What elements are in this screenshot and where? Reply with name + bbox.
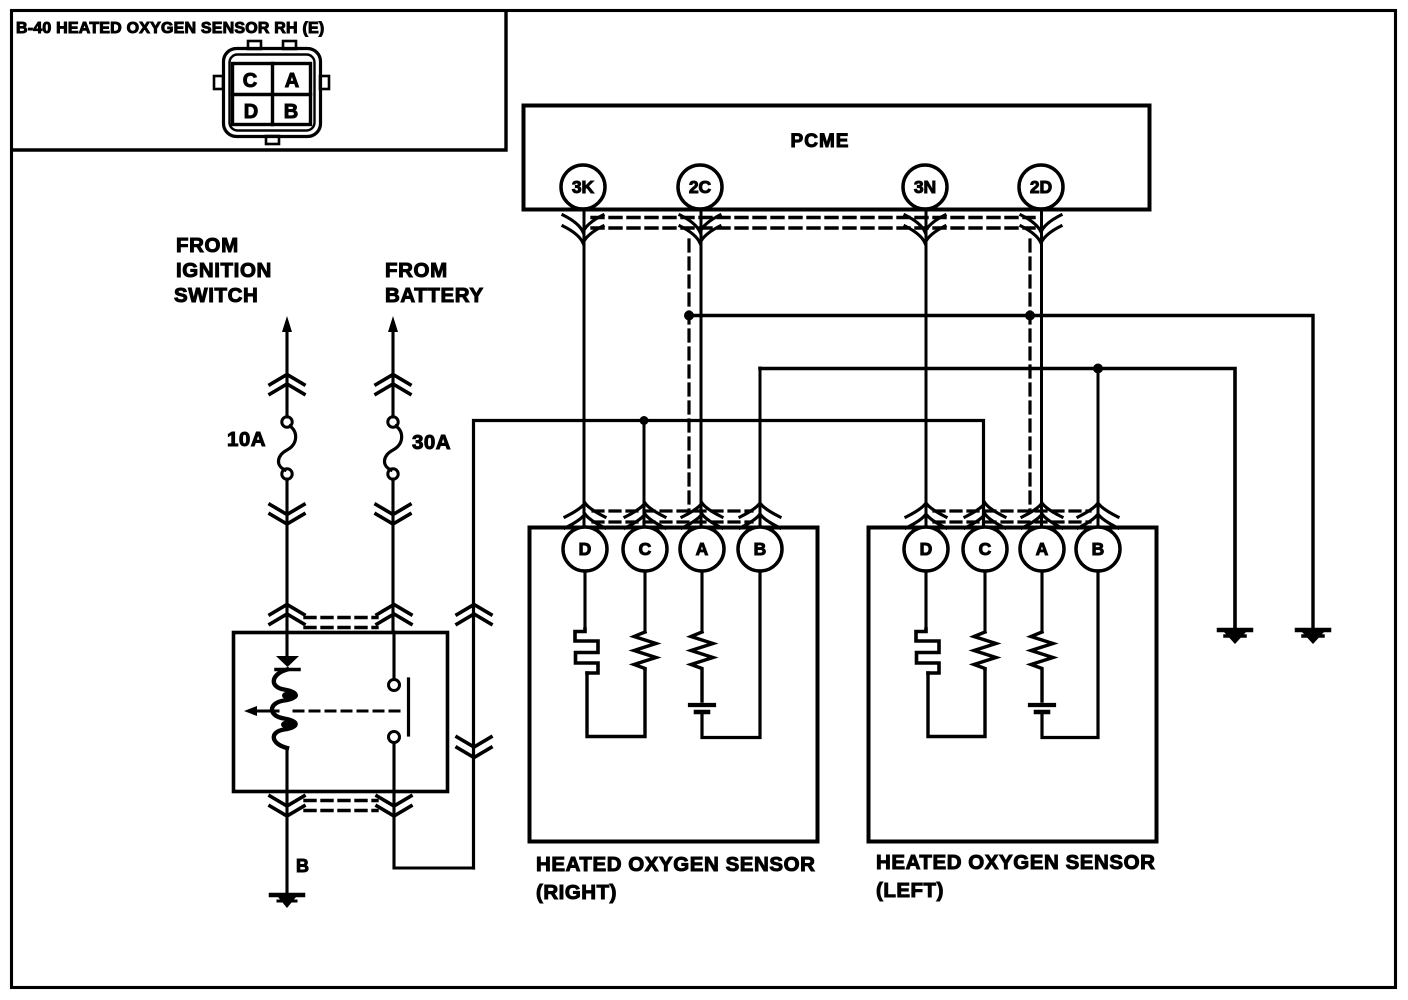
connector below fuse (ignition)	[270, 505, 304, 525]
connector grid horizontal divider	[233, 93, 311, 96]
svg-text:D: D	[920, 539, 933, 559]
PCME pin 2D	[1019, 165, 1063, 209]
junction dot shield 2D	[1025, 311, 1035, 321]
svg-text:BATTERY: BATTERY	[385, 284, 484, 307]
wire 2D to left sensor A	[1040, 210, 1043, 527]
svg-text:2C: 2C	[689, 177, 712, 197]
connector above left sensor x=1042	[1022, 503, 1062, 528]
relay actuator dashed link	[294, 710, 406, 713]
svg-text:HEATED OXYGEN SENSOR: HEATED OXYGEN SENSOR	[536, 853, 815, 876]
relay output wire	[394, 743, 474, 869]
svg-text:C: C	[243, 70, 257, 92]
svg-text:3N: 3N	[914, 177, 936, 197]
shield dashed lines above left sensor	[934, 511, 1090, 522]
relay switch feed wire	[392, 632, 395, 680]
svg-text:(LEFT): (LEFT)	[876, 879, 944, 902]
svg-text:C: C	[979, 539, 992, 559]
wire 3K to right sensor D	[583, 210, 586, 527]
ground symbol left	[1219, 628, 1251, 633]
connector above left sensor x=926	[906, 503, 946, 528]
svg-text:B-40 HEATED OXYGEN SENSOR RH (: B-40 HEATED OXYGEN SENSOR RH (E)	[16, 20, 324, 37]
connector above right sensor x=760	[740, 503, 780, 528]
main relay box	[234, 633, 448, 792]
heated oxygen sensor box (left)	[869, 528, 1157, 842]
connector right tab	[320, 76, 329, 89]
ground symbol right	[1297, 628, 1329, 633]
connector top tab 2	[283, 41, 296, 49]
sensor heater element	[916, 629, 939, 673]
connector top tab 1	[248, 41, 261, 49]
wire 2C to right sensor A	[700, 210, 703, 527]
svg-text:10A: 10A	[227, 428, 266, 451]
sensor pin C	[963, 527, 1007, 571]
connector above fuse (ignition)	[270, 375, 304, 395]
shield drain dashed wire (2D)	[1028, 240, 1031, 511]
wire pin D to heater	[583, 571, 586, 629]
ignition wire to relay	[285, 479, 288, 632]
connector on return wire	[457, 737, 491, 758]
shield braid dashed lines below PCME	[592, 218, 1034, 229]
sensor pin B	[1076, 527, 1120, 571]
sensor trim resistor	[634, 632, 656, 669]
junction dot left sensor B	[1093, 364, 1103, 374]
svg-text:3K: 3K	[572, 177, 595, 197]
svg-text:A: A	[696, 539, 709, 559]
connector grid vertical divider	[271, 64, 274, 125]
wire cell to pin B	[702, 571, 760, 738]
PCME module box U1	[524, 106, 1150, 210]
connector face outer shell	[224, 49, 321, 137]
connector above right sensor x=702	[682, 503, 722, 528]
sensor pin D	[563, 527, 607, 571]
sensor pin A	[1020, 527, 1064, 571]
wire left sensor B up	[1097, 368, 1100, 527]
junction dot right sensor C	[640, 416, 649, 425]
connector above left sensor x=985	[965, 503, 1005, 528]
sensor element resistor	[1031, 632, 1053, 701]
dashed link relay bottom	[305, 801, 377, 811]
battery feed arrow	[388, 316, 398, 332]
connector pin grid	[233, 64, 311, 125]
connector at relay top x=287	[270, 605, 304, 625]
svg-text:A: A	[285, 70, 299, 92]
connector at relay bottom x=394	[377, 796, 411, 816]
connector above right sensor x=585	[565, 503, 605, 528]
battery wire to relay	[391, 479, 394, 632]
sensor zirconia cell	[690, 703, 714, 707]
svg-text:SWITCH: SWITCH	[174, 284, 258, 307]
wire pin A down	[700, 571, 703, 632]
fuse 10A	[282, 417, 292, 427]
connector above right sensor x=645	[625, 503, 665, 528]
svg-text:30A: 30A	[412, 431, 451, 454]
connector at relay top x=474	[457, 605, 491, 625]
dashed link relay top	[305, 618, 377, 628]
shield dashed lines above right sensor	[593, 511, 752, 522]
junction dot shield 2C	[684, 311, 694, 321]
sensor zirconia cell	[1030, 703, 1054, 707]
wire pin C down	[983, 571, 986, 632]
wire pin C down	[643, 571, 646, 632]
svg-text:C: C	[639, 539, 652, 559]
relay switch bottom contact	[389, 732, 400, 743]
shield drain dashed wire (2C)	[687, 240, 690, 511]
sensor B ground wire	[760, 369, 1235, 629]
svg-text:B: B	[1092, 539, 1105, 559]
PCME pin 3K	[561, 165, 605, 209]
relay diode	[276, 656, 299, 667]
connector symbol below PCME pin 2D	[1021, 215, 1061, 243]
heated oxygen sensor box (right)	[530, 528, 818, 842]
connector face inner shell	[230, 55, 315, 131]
fuse 30A	[388, 417, 398, 427]
sensor pin C	[623, 527, 667, 571]
sensor pin B	[738, 527, 782, 571]
relay coil	[272, 670, 296, 749]
PCME pin 3N	[903, 165, 947, 209]
svg-text:(RIGHT): (RIGHT)	[536, 881, 617, 904]
wire heater bottom to pin C leg	[587, 669, 645, 737]
svg-text:FROM: FROM	[385, 259, 448, 282]
relay coil to ground wire	[285, 748, 288, 894]
heater feed wire from relay to sensors C	[474, 421, 984, 869]
connector symbol below PCME pin 3N	[905, 215, 945, 243]
title box B-40	[12, 11, 506, 150]
svg-text:A: A	[1036, 539, 1049, 559]
ignition feed wire upper	[285, 330, 288, 417]
connector above left sensor x=1098	[1078, 503, 1118, 528]
wire pin A down	[1040, 571, 1043, 632]
wire pin D to heater	[924, 571, 927, 629]
connector below fuse (battery)	[376, 505, 410, 525]
relay coil feed wire	[285, 632, 288, 656]
connector at relay bottom x=287	[270, 796, 304, 816]
svg-text:IGNITION: IGNITION	[176, 259, 272, 282]
connector symbol below PCME pin 2C	[680, 215, 720, 243]
ignition feed arrow	[282, 316, 292, 332]
svg-text:D: D	[244, 101, 258, 123]
wire heater bottom to pin C leg	[928, 669, 985, 737]
shield ground wire to right ground	[689, 316, 1313, 629]
sensor trim resistor	[974, 632, 996, 669]
svg-text:B: B	[284, 101, 298, 123]
relay actuator arrow	[252, 710, 278, 713]
connector bottom tab	[266, 136, 279, 144]
wire cell to pin B	[1042, 571, 1098, 738]
PCME pin 2C	[678, 165, 722, 209]
svg-text:B: B	[296, 856, 309, 876]
battery feed wire upper	[391, 330, 394, 417]
wire 3N to left sensor D	[925, 210, 928, 527]
relay switch top contact	[389, 680, 400, 691]
connector left tab	[214, 76, 223, 89]
svg-text:HEATED OXYGEN SENSOR: HEATED OXYGEN SENSOR	[876, 851, 1155, 874]
wire down to right sensor C	[643, 420, 646, 527]
svg-text:PCME: PCME	[791, 131, 850, 152]
ground symbol B	[271, 893, 303, 898]
sensor pin A	[680, 527, 724, 571]
svg-text:B: B	[754, 539, 767, 559]
connector at relay top x=394	[377, 605, 411, 625]
connector above fuse (battery)	[376, 375, 410, 395]
wire right sensor B up	[759, 368, 762, 527]
sensor element resistor	[691, 632, 713, 701]
connector symbol below PCME pin 3K	[563, 215, 603, 243]
sensor pin D	[904, 527, 948, 571]
sensor heater element	[575, 629, 598, 673]
svg-text:D: D	[579, 539, 592, 559]
svg-text:2D: 2D	[1030, 177, 1052, 197]
svg-text:FROM: FROM	[176, 234, 239, 257]
relay switch blade	[407, 679, 410, 735]
